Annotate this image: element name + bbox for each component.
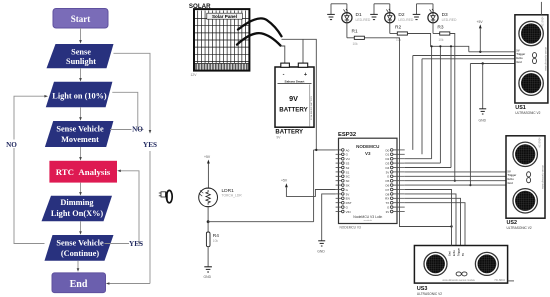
label R1 10k — [352, 29, 359, 47]
ground below US1 gnd line — [479, 64, 487, 123]
svg-text:NodeMCU V3 Lolin: NodeMCU V3 Lolin — [353, 215, 382, 219]
wire ground to D3 — [417, 4, 434, 13]
wire divider node to module A0 — [208, 221, 314, 223]
svg-text:ESP32: ESP32 — [338, 132, 356, 138]
svg-text:Trigger: Trigger — [457, 248, 460, 256]
svg-text:S3: S3 — [346, 162, 350, 166]
wire battery plus to pin A0 junction — [314, 149, 336, 222]
svg-text:LED-RED: LED-RED — [356, 18, 371, 22]
svg-text:EN: EN — [346, 197, 350, 201]
label US3 — [417, 286, 442, 296]
svg-text:+5V: +5V — [204, 155, 211, 159]
svg-text:Trigger: Trigger — [516, 52, 525, 56]
wire D2 to R2 — [390, 23, 398, 34]
wire YES loop continue to rtc — [105, 170, 143, 244]
ultrasonic sensor US3 — [414, 246, 507, 284]
op module U1 NodeMCU body — [339, 138, 398, 223]
svg-text:D8: D8 — [385, 192, 389, 196]
flowchart end box — [52, 273, 106, 293]
svg-text:www.ultrasonic-sensor: www.ultrasonic-sensor — [544, 47, 547, 71]
svg-text:Light On(X%): Light On(X%) — [51, 209, 104, 218]
svg-text:9V: 9V — [289, 94, 298, 103]
LED D3 — [428, 9, 438, 23]
wire US2 trigger line — [405, 175, 506, 177]
flowchart start box — [53, 9, 108, 29]
wire US2 5V line — [405, 171, 506, 173]
svg-text:Movement: Movement — [61, 135, 99, 144]
svg-text:3V: 3V — [386, 170, 390, 174]
wire US1 5V line with +5V arrow — [469, 20, 515, 53]
svg-text:wvvdenkt: wvvdenkt — [364, 219, 373, 222]
wire stub right of US3 — [508, 280, 514, 282]
flowchart rtc analysis — [49, 161, 117, 183]
svg-text:Sense: Sense — [71, 48, 91, 57]
svg-text:ULTRASONIC V2: ULTRASONIC V2 — [417, 292, 442, 296]
svg-text:S2: S2 — [346, 166, 350, 170]
svg-text:LED-RED: LED-RED — [398, 18, 413, 22]
svg-text:www.ultrasonic-sensor: www.ultrasonic-sensor — [542, 165, 545, 189]
wire stub above US1 — [540, 2, 542, 15]
ultrasonic sensor US1 — [515, 15, 548, 103]
wire module gnd pin to ground — [322, 194, 336, 241]
svg-text:D5: D5 — [385, 179, 389, 183]
wire US3 echo — [405, 198, 461, 245]
svg-text:3V: 3V — [386, 210, 390, 214]
svg-text:5V: 5V — [508, 169, 511, 173]
svg-text:YES: YES — [143, 141, 157, 149]
svg-text:ULTRASONIC V2: ULTRASONIC V2 — [515, 111, 540, 115]
ultrasonic sensor US2 — [506, 136, 545, 218]
wire R3 net to US2 echo — [450, 34, 456, 182]
wire NO loop left from continue to light on — [14, 95, 48, 244]
wire ground to D1 — [331, 4, 347, 13]
label D1 LED-RED — [356, 12, 371, 22]
svg-text:End: End — [70, 279, 88, 290]
ground below module — [317, 241, 325, 254]
resistor R4 — [206, 222, 210, 267]
wire US3 trigger — [405, 194, 456, 246]
svg-text:GND: GND — [204, 275, 212, 279]
label R2 10k — [395, 24, 402, 42]
svg-text:Gnd: Gnd — [508, 181, 514, 185]
wire R2 net to 5V rail — [407, 34, 468, 52]
svg-text:5V: 5V — [462, 253, 465, 256]
wire continue to end — [77, 261, 80, 272]
label ESP32 — [338, 132, 356, 138]
svg-text:GND: GND — [317, 250, 325, 254]
svg-text:S1: S1 — [346, 170, 350, 174]
label LDR1 TORCH_LDR — [222, 188, 243, 198]
svg-text:3V: 3V — [346, 192, 350, 196]
svg-text:VIN: VIN — [346, 210, 351, 214]
svg-text:GND: GND — [479, 119, 487, 123]
svg-text:Light on (10%): Light on (10%) — [52, 91, 107, 100]
resistor R1 — [354, 36, 364, 39]
svg-text:LED-RED: LED-RED — [442, 18, 457, 22]
+5V arrow left of module — [281, 179, 336, 197]
label NO left — [5, 140, 19, 150]
svg-text:9V ALKALINE BATTERY: 9V ALKALINE BATTERY — [310, 95, 313, 120]
svg-text:Dimming: Dimming — [60, 198, 94, 207]
svg-text:D3: D3 — [385, 162, 389, 166]
label YES right lower — [129, 240, 143, 248]
flowchart light on 10% — [46, 82, 113, 108]
svg-text:D7: D7 — [385, 188, 389, 192]
wire dimming to sense vehicle continue — [79, 221, 82, 235]
wire NO loop movement to light on — [110, 92, 144, 129]
label R3 10k — [437, 24, 444, 42]
svg-text:NODEMCU V3: NODEMCU V3 — [340, 225, 361, 229]
wire sunlight to light on — [79, 68, 82, 81]
wire sunlight right branch down — [106, 53, 152, 284]
label US2 — [507, 220, 532, 230]
svg-text:Echo: Echo — [453, 250, 456, 256]
svg-text:+5V: +5V — [477, 20, 484, 24]
wire solar to battery negative — [281, 46, 285, 63]
svg-text:D0: D0 — [385, 148, 389, 152]
torch bulb icon — [159, 190, 172, 202]
svg-text:10k: 10k — [353, 42, 359, 46]
svg-text:V3: V3 — [365, 151, 371, 156]
svg-text:ULTRASONIC V2: ULTRASONIC V2 — [507, 226, 532, 230]
label NODEMCU-V3 under module — [340, 225, 361, 229]
svg-text:D4: D4 — [385, 166, 389, 170]
svg-text:YES: YES — [129, 240, 143, 248]
svg-text:R2: R2 — [395, 24, 401, 30]
svg-text:RX: RX — [385, 197, 389, 201]
svg-text:A0: A0 — [346, 148, 350, 152]
battery BAT1 9V — [275, 63, 314, 127]
svg-text:Gnd: Gnd — [516, 60, 522, 64]
wire US1 echo line — [422, 59, 515, 155]
label US1 — [515, 105, 540, 115]
label YES right upper — [143, 141, 157, 149]
svg-text:R1: R1 — [352, 29, 358, 35]
svg-text:D1: D1 — [385, 153, 389, 157]
wire US1 trigger line — [413, 56, 515, 150]
LED D1 — [342, 9, 352, 23]
svg-text:Gnd: Gnd — [448, 251, 451, 256]
svg-text:NODEMCU: NODEMCU — [356, 144, 379, 149]
svg-text:RTC Analysis: RTC Analysis — [56, 167, 111, 177]
svg-text:Echo: Echo — [508, 177, 515, 181]
svg-text:SK: SK — [346, 184, 350, 188]
wire rtc to dimming — [79, 183, 82, 196]
thick solar wire upper — [238, 18, 282, 36]
svg-text:HC-SR04: HC-SR04 — [541, 16, 544, 27]
svg-text:www.ultrasonic-sensor-module: www.ultrasonic-sensor-module — [442, 279, 475, 282]
svg-text:Sense Vehicle: Sense Vehicle — [56, 125, 104, 134]
flowchart sense sunlight — [47, 44, 114, 68]
+5V arrow above LDR — [204, 155, 211, 188]
wire bus verticals to pins D2 D3 D4 — [405, 45, 433, 159]
wire US2 echo line — [405, 180, 506, 182]
label R4 10k — [213, 233, 219, 243]
svg-text:TORCH_LDR: TORCH_LDR — [222, 194, 243, 198]
svg-text:10k: 10k — [396, 38, 402, 42]
resistor R2 — [397, 32, 407, 35]
label D3 LED-RED — [442, 12, 457, 22]
svg-text:HC-SR04: HC-SR04 — [495, 279, 506, 282]
ground above D3 — [413, 4, 421, 20]
thick solar wire lower — [237, 33, 281, 45]
module left pins A0..VIN — [336, 148, 352, 214]
label NO right — [132, 125, 143, 133]
wire ground to D2 — [374, 4, 390, 13]
svg-text:-: - — [283, 72, 285, 78]
svg-text:Start: Start — [71, 14, 91, 24]
svg-text:D2: D2 — [385, 157, 389, 161]
wire R1 net to US3 — [364, 38, 452, 228]
svg-text:RST: RST — [346, 201, 352, 205]
wire movement to rtc — [79, 147, 82, 161]
svg-text:+5V: +5V — [281, 179, 288, 183]
wire D3 to R3 — [433, 23, 440, 34]
wire US2 gnd line — [405, 184, 506, 186]
svg-text:TX: TX — [385, 201, 389, 205]
svg-text:D6: D6 — [385, 184, 389, 188]
label 12V under solar panel — [191, 73, 198, 77]
svg-text:5V: 5V — [516, 48, 519, 52]
svg-text:Trigger: Trigger — [508, 173, 517, 177]
wire solar/battery positive rail — [282, 39, 317, 150]
ground above D2 — [370, 4, 378, 20]
svg-text:HC-SR04: HC-SR04 — [539, 137, 542, 148]
svg-text:10k: 10k — [213, 239, 219, 243]
wire D1 to R1 — [347, 23, 354, 38]
label SOLAR — [189, 3, 211, 10]
flowchart dimming light — [42, 196, 113, 222]
LDR1 TORCH_LDR — [199, 188, 218, 207]
wire US3 gnd — [405, 203, 465, 246]
svg-text:Echo: Echo — [516, 56, 523, 60]
svg-text:(Continue): (Continue) — [61, 249, 99, 258]
wire US3 5V pin stub — [451, 240, 453, 246]
ground below R4 — [204, 267, 212, 279]
svg-text:NO: NO — [132, 125, 143, 133]
svg-text:R3: R3 — [437, 24, 443, 30]
solar panel PV1 — [194, 9, 249, 71]
svg-text:12V: 12V — [191, 73, 198, 77]
wire US3 5V — [405, 190, 452, 246]
svg-text:S0: S0 — [346, 179, 350, 183]
svg-text:VU: VU — [346, 157, 350, 161]
svg-text:Sahara Smart: Sahara Smart — [285, 80, 305, 84]
wire start to sense sunlight — [79, 28, 82, 44]
svg-text:Solar Panel: Solar Panel — [212, 14, 237, 19]
wire LDR to divider node — [207, 207, 210, 223]
flowchart sense vehicle continue — [45, 235, 114, 261]
wire US1 gnd line — [469, 62, 515, 186]
svg-text:Sense Vehicle: Sense Vehicle — [56, 238, 104, 247]
svg-text:BATTERY: BATTERY — [279, 107, 308, 114]
svg-text:NO: NO — [6, 141, 17, 149]
label BATTERY — [275, 129, 303, 139]
label D2 LED-RED — [398, 12, 413, 22]
module right pins D0..3V — [385, 148, 405, 214]
svg-text:+: + — [304, 72, 307, 78]
LED D2 — [385, 9, 395, 23]
svg-text:Sunlight: Sunlight — [66, 57, 96, 66]
resistor R3 — [440, 32, 450, 35]
wire light on to sense vehicle movement — [79, 107, 82, 120]
ground above D1 — [327, 4, 335, 20]
svg-text:10k: 10k — [438, 38, 444, 42]
flowchart sense vehicle movement — [45, 121, 114, 147]
